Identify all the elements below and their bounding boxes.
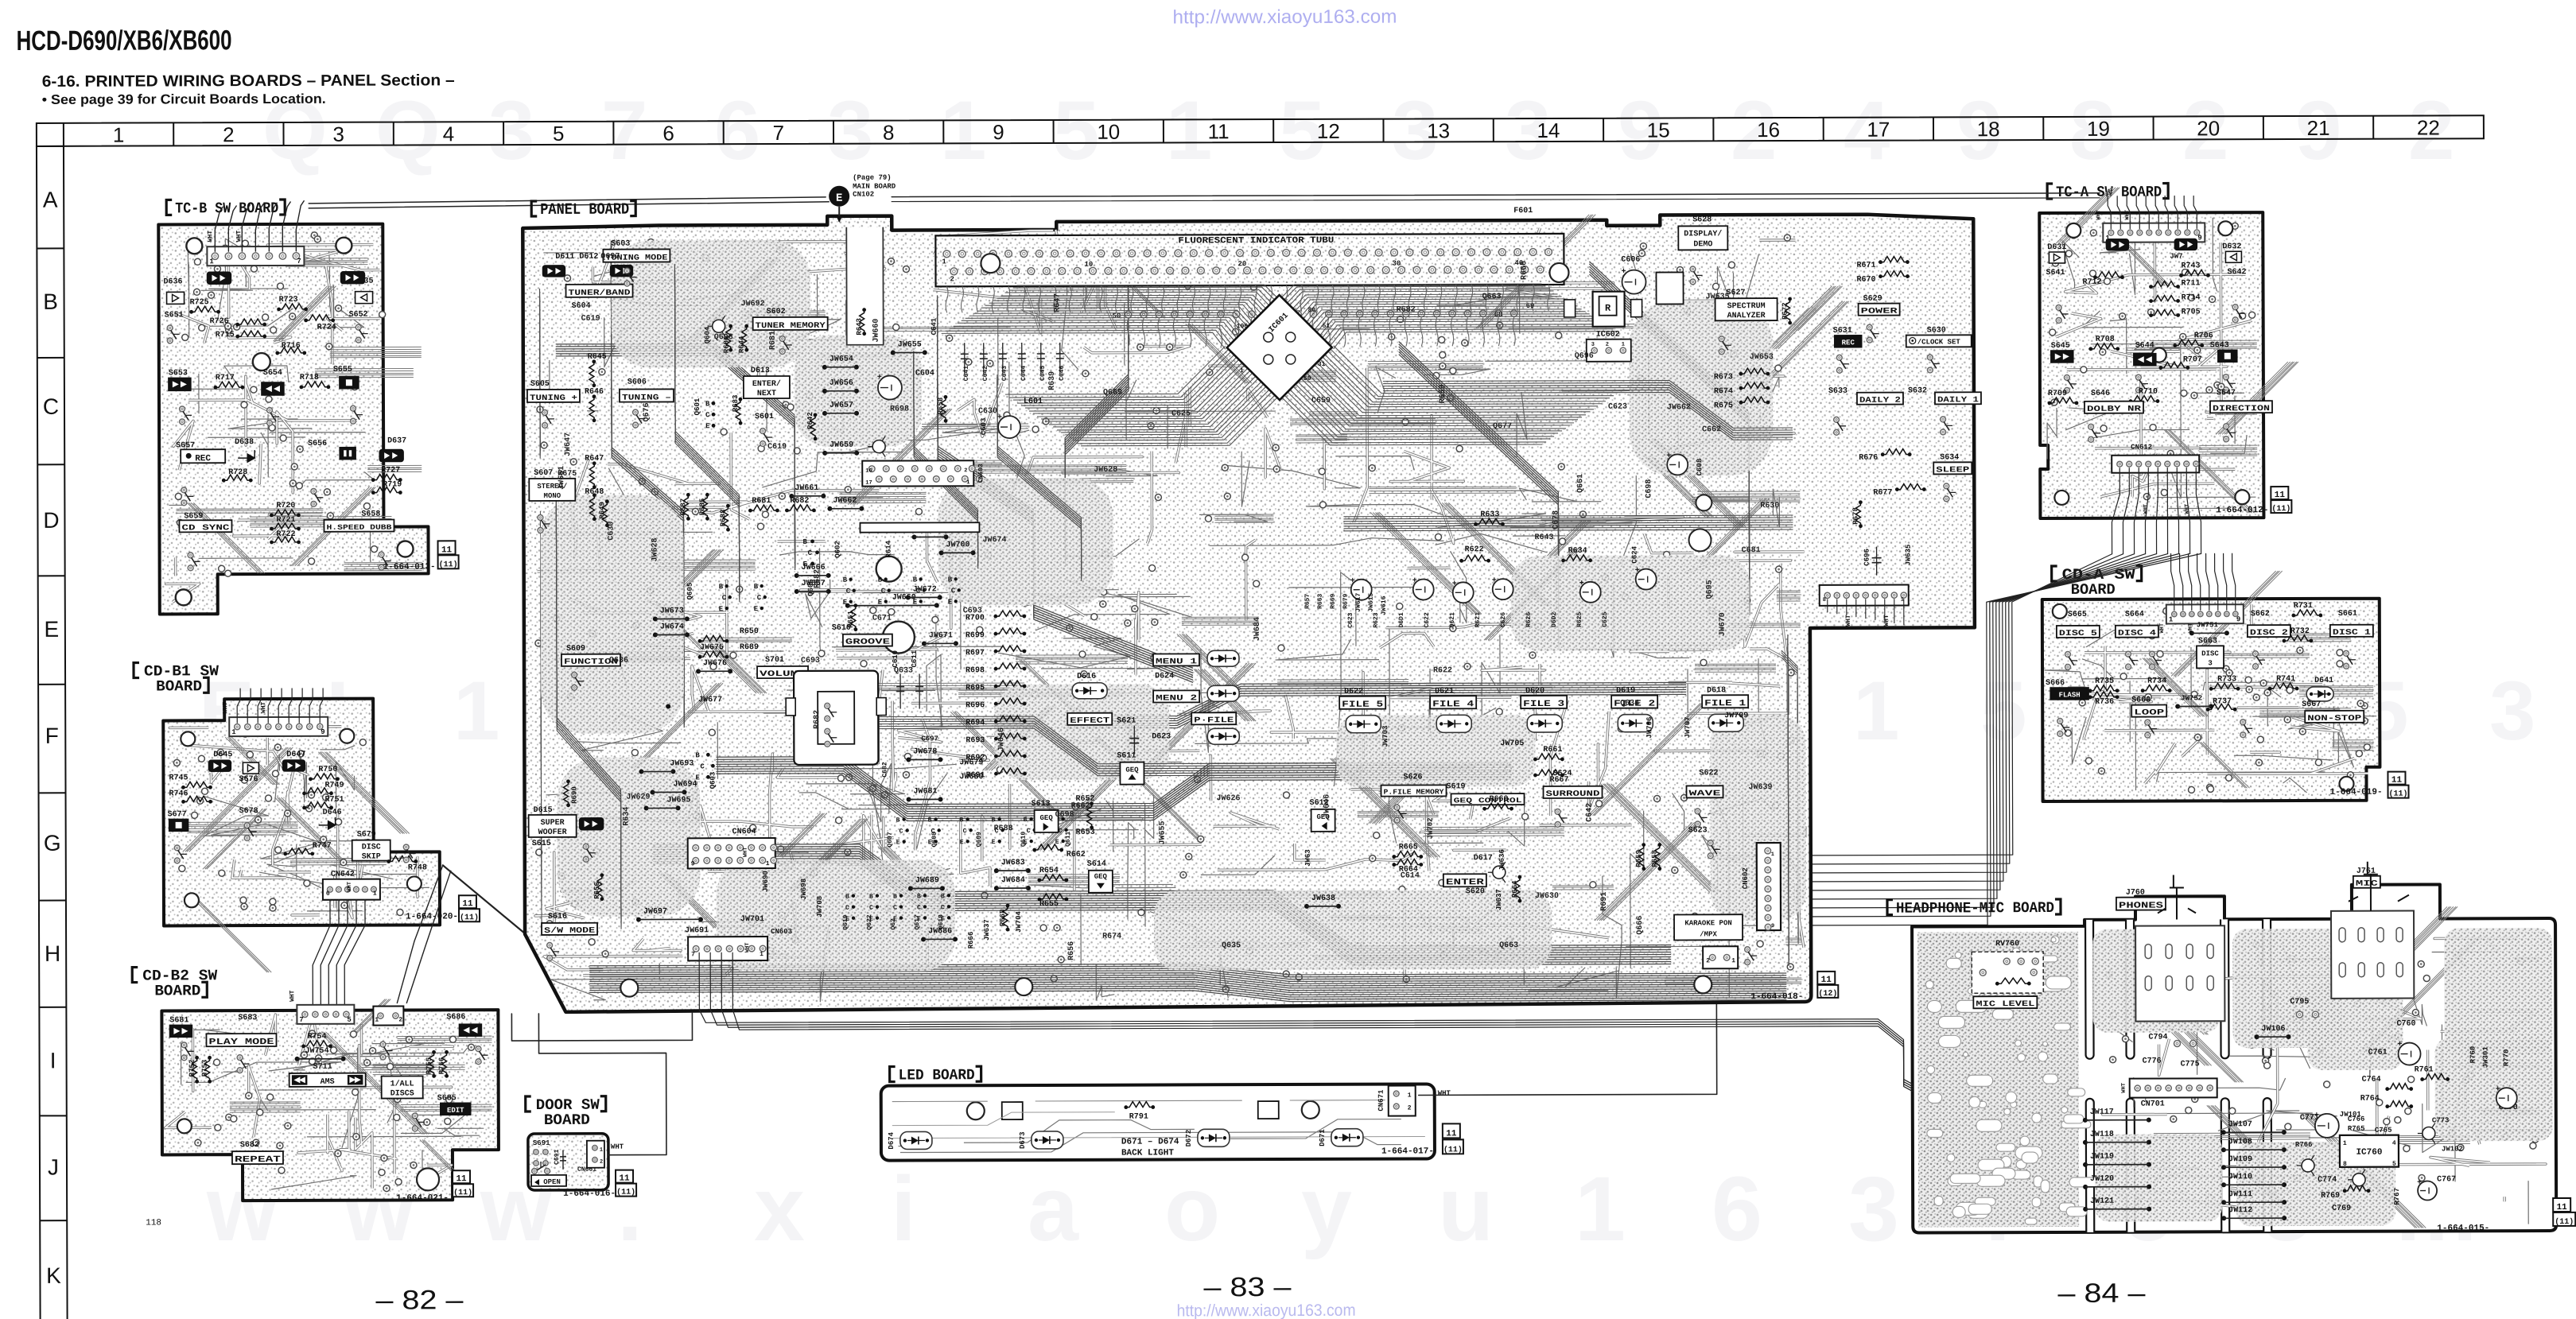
- svg-text:5: 5: [2392, 1161, 2396, 1168]
- svg-text:R726: R726: [210, 317, 229, 326]
- switch: [583, 844, 589, 849]
- diode pkg: [610, 266, 632, 277]
- svg-text:WHT: WHT: [2159, 623, 2166, 634]
- svg-text:C623: C623: [1347, 612, 1354, 627]
- board CD-A SW outline: [2042, 599, 2380, 801]
- svg-text:JW646: JW646: [1323, 794, 1332, 818]
- svg-text:SPECTRUM: SPECTRUM: [1727, 302, 1766, 311]
- svg-text:F601: F601: [1513, 207, 1533, 215]
- wire trace: [892, 1100, 1385, 1102]
- switch: [403, 844, 409, 850]
- svg-text:MENU 2: MENU 2: [1156, 694, 1197, 703]
- svg-text:JW626: JW626: [1217, 794, 1241, 803]
- svg-text:C: C: [893, 905, 897, 912]
- svg-text:CN603: CN603: [977, 464, 985, 483]
- svg-text:DISPLAY/: DISPLAY/: [1684, 229, 1722, 239]
- svg-text:6-16. PRINTED WIRING BOARD: 6-16. PRINTED WIRING BOARDS – PANEL Sect…: [42, 72, 455, 91]
- svg-text:22: 22: [2417, 115, 2440, 139]
- label FILE 1: [1702, 695, 1748, 708]
- sheet ref box: [459, 895, 476, 908]
- label TUNER/BAND: [566, 285, 633, 297]
- board name LED BOARD: [890, 1067, 896, 1082]
- svg-text:S632: S632: [1908, 386, 1927, 395]
- mount hole: [1694, 976, 1712, 993]
- switch S651: [167, 292, 185, 304]
- svg-text:D611 D612: D611 D612: [555, 253, 598, 262]
- svg-text:JW751: JW751: [2197, 621, 2219, 629]
- svg-text:WHT: WHT: [2096, 210, 2102, 220]
- svg-text:Q666: Q666: [1636, 916, 1645, 935]
- svg-text:R659: R659: [1439, 384, 1447, 403]
- svg-text:BOARD: BOARD: [156, 677, 202, 695]
- svg-text:C606: C606: [1621, 256, 1640, 265]
- connector 2p: [373, 1006, 403, 1025]
- svg-text:JW106: JW106: [2261, 1025, 2285, 1034]
- svg-text:JW698: JW698: [800, 879, 808, 900]
- svg-text:JW681: JW681: [914, 787, 938, 796]
- svg-text:B: B: [928, 817, 932, 824]
- svg-text:C760: C760: [2396, 1020, 2415, 1029]
- svg-text:1-664-019-: 1-664-019-: [2330, 788, 2383, 797]
- svg-text:C610: C610: [892, 650, 899, 668]
- svg-text:TUNER/BAND: TUNER/BAND: [569, 289, 631, 298]
- board name DOOR SW BOARD: [526, 1096, 531, 1111]
- label OPEN: [531, 1175, 566, 1186]
- svg-text:18: 18: [1977, 117, 2000, 141]
- svg-text:30: 30: [1392, 260, 1401, 268]
- connector CD-B1 top: [229, 717, 328, 736]
- svg-text:R691: R691: [1600, 892, 1609, 911]
- svg-text:R681: R681: [752, 497, 771, 506]
- wire bus: [1589, 261, 1749, 603]
- svg-text:B: B: [719, 583, 724, 591]
- svg-text:D623: D623: [1152, 732, 1171, 741]
- wire bus: [1383, 380, 1793, 429]
- connector CD-B2 top: [297, 1005, 354, 1024]
- svg-text:7: 7: [773, 121, 785, 145]
- svg-text:S628: S628: [1692, 215, 1712, 224]
- svg-text:R706: R706: [2194, 332, 2213, 340]
- connector CN102 keepout: [846, 227, 883, 345]
- svg-text:JW117: JW117: [2090, 1108, 2114, 1117]
- sheet ref box: [1817, 972, 1835, 984]
- svg-text:C614: C614: [1401, 871, 1420, 880]
- svg-text:HEADPHONE-MIC BOARD: HEADPHONE-MIC BOARD: [1896, 899, 2054, 917]
- svg-text:S605: S605: [530, 380, 550, 389]
- svg-text:R661: R661: [1543, 746, 1562, 755]
- svg-text:R681: R681: [769, 331, 778, 350]
- mount hole: [417, 1168, 439, 1190]
- svg-text:S630: S630: [1927, 326, 1946, 335]
- svg-text:B: B: [695, 751, 700, 759]
- switch: [174, 845, 180, 851]
- svg-text:Q: Q: [375, 84, 441, 177]
- svg-text:R662: R662: [1067, 851, 1086, 859]
- svg-text:1: 1: [942, 258, 946, 266]
- svg-text:R682: R682: [1397, 305, 1416, 314]
- svg-text:o: o: [1164, 1158, 1220, 1260]
- svg-text:JW660: JW660: [872, 319, 881, 343]
- wire: [443, 865, 526, 934]
- mount hole: [2053, 604, 2067, 619]
- svg-text:C604: C604: [915, 369, 934, 378]
- svg-text:1: 1: [1731, 957, 1735, 964]
- svg-text:JW119: JW119: [2090, 1153, 2114, 1162]
- svg-text:1-664-020-: 1-664-020-: [406, 912, 458, 921]
- svg-text:(11): (11): [460, 913, 479, 922]
- svg-text:C624: C624: [1631, 545, 1639, 563]
- svg-text:B: B: [992, 817, 996, 824]
- svg-text:JW754: JW754: [305, 1047, 329, 1056]
- svg-text:Q669: Q669: [1103, 389, 1122, 398]
- wire bus: [674, 264, 739, 590]
- label PHONES: [2116, 898, 2166, 910]
- svg-text:(12): (12): [1818, 989, 1837, 999]
- svg-text:8: 8: [1823, 597, 1826, 603]
- svg-text:R621: R621: [1474, 612, 1482, 627]
- svg-text:JW617: JW617: [1355, 593, 1362, 612]
- wire: [168, 239, 374, 563]
- svg-text:2: 2: [223, 122, 235, 146]
- resistor R791: [1126, 1102, 1153, 1108]
- svg-text:R663: R663: [1317, 593, 1324, 608]
- svg-text:RV760: RV760: [1995, 940, 2019, 949]
- svg-text:C645: C645: [1039, 366, 1047, 381]
- sheet ref box: [453, 1170, 470, 1183]
- sheet ref box: [438, 541, 456, 554]
- svg-text:BOARD: BOARD: [2071, 581, 2116, 599]
- svg-text:S631: S631: [1833, 327, 1852, 336]
- svg-text:1-664-017-: 1-664-017-: [1381, 1146, 1434, 1156]
- svg-text:Q698: Q698: [714, 333, 733, 342]
- svg-text:C693: C693: [963, 607, 982, 615]
- svg-text:+: +: [1412, 576, 1417, 585]
- wire channels: [2143, 571, 2374, 789]
- svg-text:D636: D636: [163, 277, 182, 286]
- svg-text:R725: R725: [190, 298, 209, 307]
- svg-text:R650: R650: [740, 627, 759, 636]
- svg-text:R717: R717: [216, 374, 235, 382]
- svg-text:JW694: JW694: [673, 780, 697, 789]
- label DISC SKIP: [352, 840, 390, 861]
- svg-text:D620: D620: [1525, 687, 1544, 696]
- svg-text:C767: C767: [2437, 1175, 2456, 1184]
- svg-text:R666: R666: [967, 932, 975, 949]
- svg-text:2: 2: [600, 1159, 603, 1166]
- svg-text:7: 7: [299, 1016, 303, 1024]
- svg-text:JW630: JW630: [1535, 892, 1559, 901]
- svg-text:B: B: [1024, 817, 1028, 824]
- svg-text:HCD-D690/XB6/XB600: HCD-D690/XB6/XB600: [16, 25, 231, 56]
- svg-text:E: E: [843, 599, 848, 607]
- svg-text:B: B: [843, 576, 848, 584]
- svg-text:S606: S606: [627, 378, 647, 387]
- mount hole: [336, 238, 352, 254]
- svg-text:JW111: JW111: [2228, 1190, 2252, 1199]
- svg-text:(11): (11): [2271, 504, 2290, 514]
- svg-text:ANALYZER: ANALYZER: [1727, 312, 1766, 320]
- svg-text:Q695: Q695: [1706, 580, 1715, 599]
- svg-text:REC: REC: [1842, 339, 1855, 347]
- diode: [1207, 685, 1239, 701]
- mount hole: [185, 893, 199, 907]
- slot cutout: [2220, 919, 2229, 1058]
- slot cutout: [2085, 920, 2094, 1059]
- svg-text:WHT: WHT: [1845, 615, 1852, 627]
- svg-text:a: a: [1028, 1158, 1079, 1260]
- wire channels: [175, 258, 422, 573]
- label MIC LEVEL: [1973, 996, 2037, 1008]
- svg-text:CN612: CN612: [2131, 444, 2152, 452]
- svg-text:R718: R718: [300, 374, 319, 382]
- svg-text:R732: R732: [2290, 627, 2310, 636]
- svg-text:B: B: [948, 576, 953, 584]
- svg-text:E: E: [1055, 839, 1059, 846]
- svg-text:1: 1: [1575, 1158, 1626, 1260]
- svg-text:S652: S652: [349, 311, 368, 320]
- svg-text:R770: R770: [2503, 1049, 2511, 1067]
- svg-text:JW637: JW637: [1495, 889, 1503, 910]
- diode module: [1527, 715, 1562, 732]
- svg-text:C765: C765: [2375, 1127, 2392, 1135]
- svg-text:C625: C625: [1171, 409, 1191, 418]
- svg-text:FILE 1: FILE 1: [1704, 699, 1746, 708]
- mount hole: [2054, 491, 2069, 505]
- svg-text:DISC 2: DISC 2: [2250, 629, 2288, 638]
- svg-text:B: B: [941, 893, 945, 900]
- svg-text:R761: R761: [2415, 1065, 2434, 1074]
- svg-text:OPEN: OPEN: [543, 1178, 561, 1186]
- svg-text:y: y: [1301, 1158, 1352, 1260]
- svg-text:C: C: [808, 549, 813, 557]
- svg-text:S621: S621: [1117, 717, 1136, 726]
- svg-text:JW683: JW683: [1001, 859, 1025, 867]
- svg-text:S679: S679: [357, 831, 376, 840]
- svg-text:JW656: JW656: [830, 379, 853, 388]
- svg-text:1-664-012-: 1-664-012-: [2216, 506, 2268, 515]
- svg-text:+: +: [2417, 1179, 2422, 1188]
- svg-text:B: B: [754, 583, 759, 591]
- svg-text:1: 1: [231, 728, 236, 736]
- svg-text:S613: S613: [1032, 800, 1051, 809]
- svg-text:118: 118: [146, 1218, 161, 1228]
- pads: [2106, 941, 2539, 1218]
- svg-text:S/W MODE: S/W MODE: [544, 926, 595, 936]
- board name HEADPHONE-MIC BOARD: [1887, 900, 1893, 915]
- svg-text:JW628: JW628: [1094, 466, 1117, 475]
- svg-text:DISC: DISC: [362, 844, 381, 852]
- wire: [203, 745, 429, 911]
- svg-text:R731: R731: [2294, 602, 2313, 611]
- svg-text:5: 5: [1053, 84, 1099, 177]
- svg-text:11: 11: [2391, 776, 2403, 786]
- svg-text:JW704: JW704: [1015, 910, 1023, 933]
- svg-text:D622: D622: [1344, 688, 1363, 696]
- svg-text:C773: C773: [2432, 1116, 2450, 1124]
- svg-text:C764: C764: [2362, 1076, 2381, 1084]
- transistor: [2302, 1159, 2314, 1172]
- svg-text:100: 100: [1237, 323, 1249, 330]
- svg-text:FLUORESCENT INDICATOR TUBU: FLUORESCENT INDICATOR TUBU: [1178, 236, 1334, 246]
- svg-text:8: 8: [883, 121, 895, 145]
- switch S684: [380, 1042, 386, 1047]
- svg-text:2: 2: [1408, 1105, 1412, 1112]
- wire: [2108, 196, 2111, 229]
- mount hole: [981, 254, 1000, 273]
- wire: [313, 900, 330, 1008]
- svg-text:GEQ CONTROL: GEQ CONTROL: [1454, 797, 1522, 805]
- svg-text:9: 9: [2197, 234, 2201, 242]
- board TC-B SW outline: [158, 223, 429, 614]
- svg-text:S663: S663: [2198, 637, 2217, 646]
- switch: [476, 1046, 481, 1052]
- svg-text:S686: S686: [446, 1013, 465, 1022]
- svg-text:JW671: JW671: [929, 631, 953, 640]
- svg-text:JW678: JW678: [913, 747, 937, 756]
- svg-text:S620: S620: [1466, 887, 1485, 896]
- connector panel right 9p: [1820, 585, 1909, 606]
- svg-text:L601: L601: [1024, 398, 1043, 406]
- svg-text:JW674: JW674: [983, 536, 1007, 545]
- svg-text:CN671: CN671: [1377, 1089, 1385, 1111]
- svg-text:1: 1: [966, 479, 969, 486]
- svg-text:R743: R743: [2181, 262, 2200, 270]
- svg-text:JW686: JW686: [928, 927, 952, 936]
- svg-text:D671 – D674: D671 – D674: [1121, 1137, 1179, 1146]
- svg-text:JW108: JW108: [2228, 1138, 2252, 1146]
- svg-text:14: 14: [1537, 118, 1560, 142]
- svg-text:JW121: JW121: [2090, 1197, 2114, 1206]
- svg-text:JW702: JW702: [1427, 817, 1435, 839]
- svg-text:CN102: CN102: [853, 191, 874, 199]
- svg-text:WHT: WHT: [2143, 504, 2149, 514]
- svg-text:P.FILE MEMORY: P.FILE MEMORY: [1384, 788, 1445, 796]
- svg-text:R733: R733: [2217, 675, 2236, 684]
- switch S652: [356, 292, 373, 304]
- sheet ref box: [616, 1170, 633, 1183]
- svg-text:2: 2: [1606, 342, 1609, 348]
- board CD-B2 SW outline: [161, 1010, 499, 1201]
- svg-text:R654: R654: [1039, 867, 1059, 875]
- svg-text:(11): (11): [2389, 789, 2408, 799]
- svg-text:S677: S677: [168, 810, 187, 819]
- svg-text:S633: S633: [1828, 387, 1847, 396]
- wire bundle to HPM: [699, 949, 1913, 1088]
- svg-text:1: 1: [1771, 852, 1774, 858]
- svg-text:Q663: Q663: [1499, 941, 1518, 950]
- svg-text:S676: S676: [239, 775, 258, 784]
- svg-text:R657: R657: [1304, 594, 1311, 609]
- svg-text:B: B: [803, 538, 808, 546]
- svg-text:WHT: WHT: [207, 231, 214, 242]
- svg-text:R767: R767: [2393, 1188, 2401, 1205]
- mount hole: [340, 729, 354, 743]
- svg-text:R666: R666: [1520, 261, 1529, 280]
- svg-text:C671: C671: [872, 615, 892, 623]
- svg-text:u: u: [1438, 1158, 1494, 1260]
- copper pour patches: [2092, 929, 2220, 1033]
- svg-text:C761: C761: [2368, 1049, 2388, 1057]
- svg-text:3: 3: [1848, 1158, 1899, 1260]
- svg-text:Q609: Q609: [976, 832, 983, 847]
- electrolytics row: [1351, 580, 1372, 600]
- svg-text:C625: C625: [1602, 611, 1609, 627]
- svg-text:+: +: [2398, 1041, 2403, 1049]
- diode pkg: [2174, 239, 2197, 250]
- svg-text:ENTER/: ENTER/: [752, 379, 781, 389]
- svg-text:S646: S646: [2091, 390, 2110, 398]
- svg-text:D6D2: D6D2: [1551, 612, 1558, 627]
- svg-text:S678: S678: [239, 807, 258, 816]
- svg-text:+: +: [877, 374, 882, 382]
- mount hole: [398, 541, 414, 557]
- label MIC: [2353, 876, 2380, 888]
- diode module: [1618, 715, 1653, 732]
- svg-text:C774: C774: [2318, 1176, 2337, 1185]
- svg-text:R675: R675: [558, 470, 577, 479]
- svg-text:B: B: [960, 817, 964, 824]
- svg-text:E: E: [705, 422, 710, 430]
- svg-text:/CLOCK SET: /CLOCK SET: [1917, 338, 1961, 346]
- svg-text:B: B: [878, 576, 883, 584]
- switch S676: [243, 762, 258, 774]
- svg-text:JW691: JW691: [685, 926, 709, 935]
- board TC-A SW outline: [2039, 212, 2263, 518]
- svg-text:JW101: JW101: [2340, 1111, 2362, 1119]
- svg-text:JW646: JW646: [997, 727, 1006, 751]
- svg-text:11: 11: [441, 545, 453, 555]
- svg-text:JW110: JW110: [2228, 1173, 2252, 1181]
- svg-text:6: 6: [662, 121, 674, 145]
- svg-text:S604: S604: [572, 302, 591, 311]
- svg-text:JW654: JW654: [830, 355, 853, 364]
- svg-text:IC760: IC760: [2356, 1148, 2382, 1158]
- svg-text:8: 8: [2343, 1161, 2347, 1168]
- IC IC601: [1227, 295, 1332, 400]
- svg-text:DAILY 2: DAILY 2: [1859, 397, 1901, 405]
- transistor: [2353, 1174, 2365, 1186]
- svg-text:R741: R741: [2276, 675, 2295, 684]
- switch: [2064, 375, 2069, 381]
- svg-text:+: +: [2496, 1085, 2500, 1094]
- svg-text:R710: R710: [2139, 388, 2158, 397]
- label DISC 3: [2197, 646, 2224, 668]
- svg-text:DAILY 1: DAILY 1: [1937, 396, 1979, 405]
- svg-text:C659: C659: [1311, 397, 1331, 405]
- svg-text:9: 9: [321, 728, 324, 736]
- svg-text:JW680: JW680: [959, 773, 983, 782]
- mount hole: [176, 589, 192, 605]
- svg-text:H.SPEED DUBB: H.SPEED DUBB: [326, 524, 392, 532]
- svg-text:C642: C642: [982, 366, 989, 381]
- svg-text:+: +: [1579, 580, 1584, 588]
- svg-text:R658: R658: [937, 398, 945, 415]
- svg-text:D617: D617: [1474, 854, 1493, 863]
- IC IC760: [2340, 1135, 2399, 1167]
- svg-text:D: D: [43, 508, 59, 533]
- svg-text:WHT: WHT: [347, 882, 353, 892]
- svg-text:S601: S601: [755, 413, 774, 421]
- svg-text:S616: S616: [548, 913, 567, 921]
- svg-text:D646: D646: [323, 809, 342, 817]
- svg-text:+: +: [1452, 580, 1457, 588]
- svg-text:(11): (11): [1443, 1145, 1463, 1154]
- svg-text:R748: R748: [408, 863, 427, 872]
- svg-text:E: E: [836, 192, 842, 205]
- svg-text:1: 1: [1853, 665, 1899, 758]
- svg-text:+: +: [1621, 268, 1626, 277]
- svg-text:E: E: [992, 839, 996, 846]
